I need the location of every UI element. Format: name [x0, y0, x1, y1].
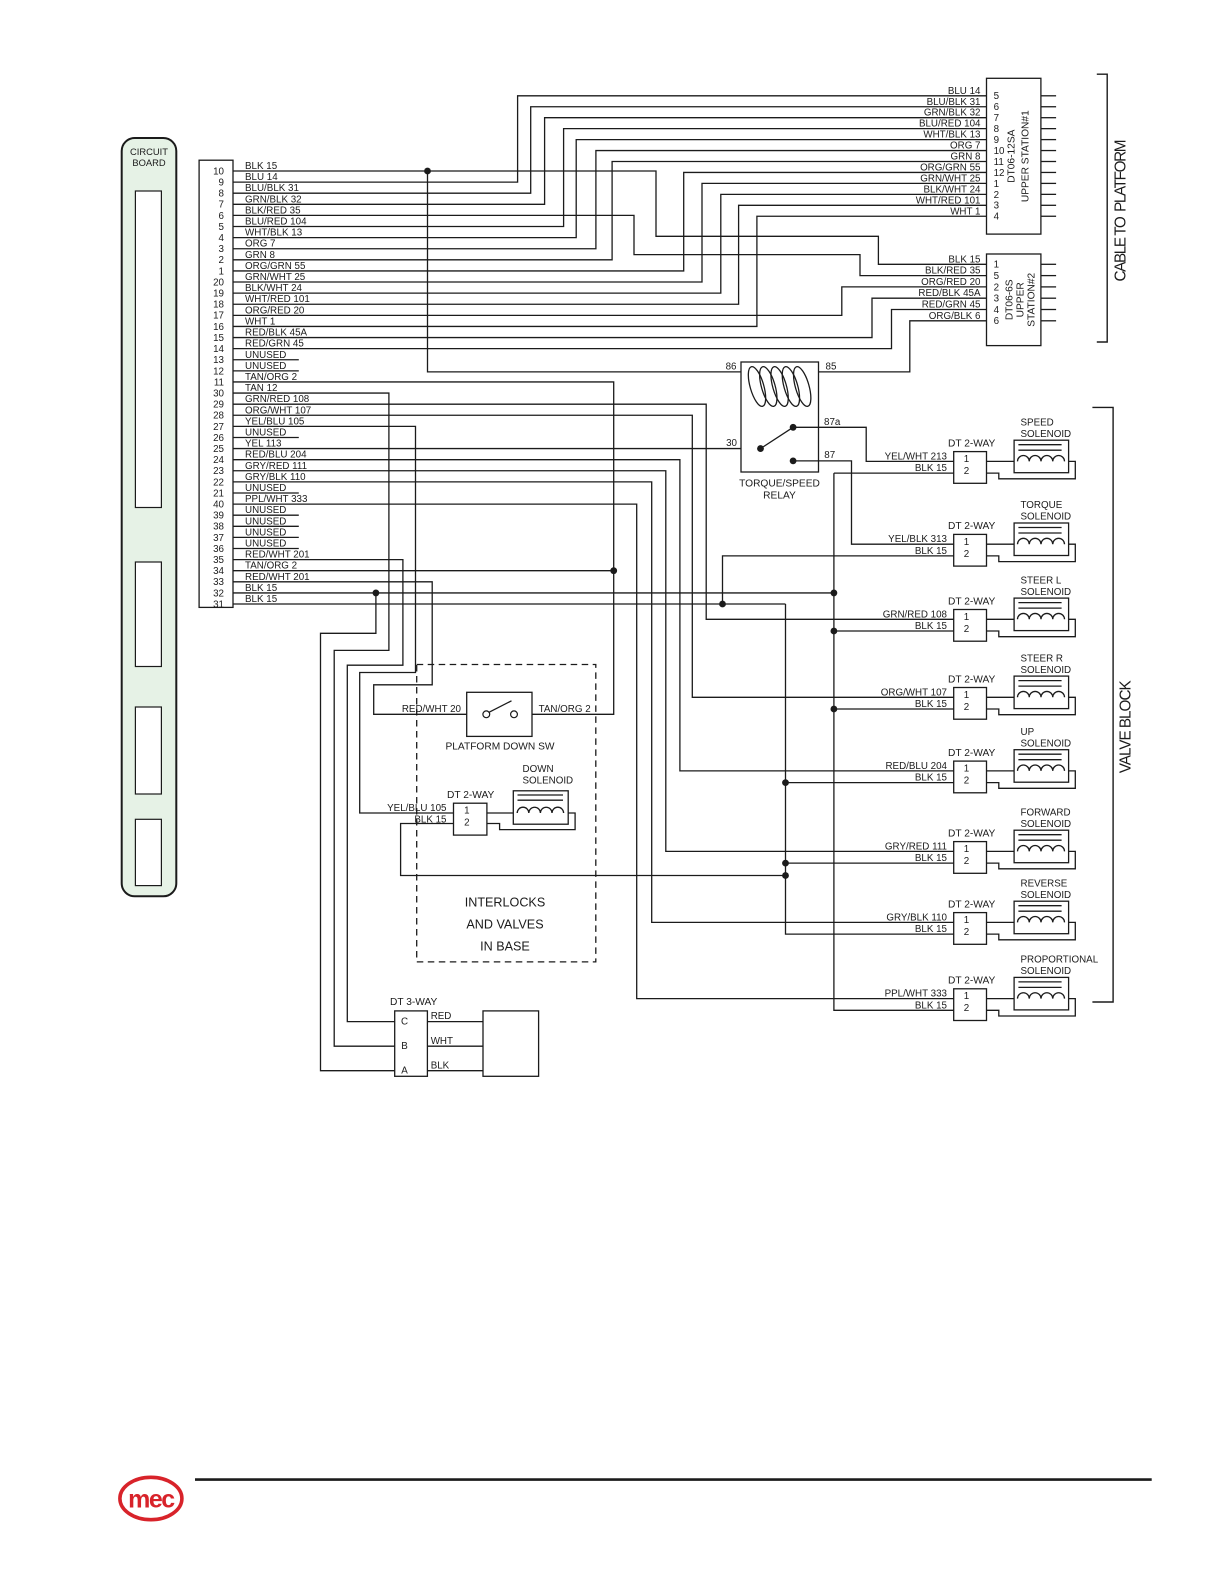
svg-text:BLK 15: BLK 15 [915, 621, 948, 632]
svg-text:24: 24 [213, 455, 224, 466]
svg-text:RED/BLU 204: RED/BLU 204 [885, 761, 947, 772]
svg-text:3: 3 [994, 201, 1000, 212]
svg-text:DT 2-WAY: DT 2-WAY [948, 976, 996, 987]
svg-text:STEER L: STEER L [1021, 575, 1062, 586]
svg-text:1: 1 [964, 612, 969, 623]
svg-text:VALVE BLOCK: VALVE BLOCK [1118, 680, 1135, 774]
svg-text:5: 5 [994, 271, 1000, 282]
svg-text:2: 2 [219, 255, 224, 266]
svg-text:29: 29 [213, 400, 224, 411]
svg-text:PROPORTIONAL: PROPORTIONAL [1021, 955, 1099, 966]
svg-text:SOLENOID: SOLENOID [1021, 587, 1072, 598]
svg-text:2: 2 [964, 466, 969, 477]
svg-text:39: 39 [213, 511, 224, 522]
svg-text:DT 2-WAY: DT 2-WAY [948, 674, 996, 685]
svg-text:6: 6 [219, 211, 225, 222]
svg-text:UP: UP [1021, 727, 1035, 738]
svg-text:ORG/GRN 55: ORG/GRN 55 [920, 162, 981, 173]
svg-text:1: 1 [964, 915, 969, 926]
svg-text:1: 1 [219, 266, 224, 277]
svg-text:BLK 15: BLK 15 [915, 773, 948, 784]
svg-text:BOARD: BOARD [132, 157, 166, 168]
svg-text:GRN/BLK 32: GRN/BLK 32 [924, 108, 981, 119]
svg-text:11: 11 [994, 157, 1004, 168]
svg-text:BLK 15: BLK 15 [948, 254, 981, 265]
svg-text:1: 1 [994, 260, 999, 271]
svg-text:DT 2-WAY: DT 2-WAY [948, 899, 996, 910]
svg-text:DT 2-WAY: DT 2-WAY [948, 828, 996, 839]
svg-text:40: 40 [213, 499, 224, 510]
svg-text:WHT/RED 101: WHT/RED 101 [916, 195, 981, 206]
svg-text:SOLENOID: SOLENOID [1021, 429, 1072, 440]
svg-text:ORG/WHT 107: ORG/WHT 107 [881, 687, 947, 698]
svg-text:1: 1 [964, 690, 969, 701]
svg-text:2: 2 [964, 624, 969, 635]
svg-text:SOLENOID: SOLENOID [523, 775, 574, 786]
svg-text:DT06-6S: DT06-6S [1005, 279, 1016, 320]
svg-text:BLU/RED 104: BLU/RED 104 [919, 119, 981, 130]
svg-text:DT 2-WAY: DT 2-WAY [948, 521, 996, 532]
svg-text:9: 9 [994, 135, 999, 146]
svg-text:CABLE TO PLATFORM: CABLE TO PLATFORM [1113, 140, 1130, 282]
svg-text:2: 2 [964, 927, 969, 938]
svg-text:4: 4 [994, 212, 1000, 223]
svg-text:1: 1 [964, 537, 969, 548]
svg-text:2: 2 [994, 190, 999, 201]
svg-text:DT 2-WAY: DT 2-WAY [948, 438, 996, 449]
svg-text:GRN 8: GRN 8 [951, 152, 981, 163]
svg-text:30: 30 [726, 438, 737, 449]
svg-text:SOLENOID: SOLENOID [1021, 966, 1072, 977]
svg-text:21: 21 [213, 488, 224, 499]
svg-text:34: 34 [213, 566, 224, 577]
svg-text:31: 31 [213, 599, 224, 610]
svg-text:AND VALVES: AND VALVES [466, 918, 543, 932]
svg-text:WHT/BLK 13: WHT/BLK 13 [923, 130, 981, 141]
svg-text:mec: mec [128, 1486, 175, 1514]
svg-text:BLK 15: BLK 15 [915, 853, 948, 864]
svg-text:87a: 87a [824, 417, 841, 428]
svg-text:DT 3-WAY: DT 3-WAY [390, 997, 438, 1008]
svg-text:3: 3 [219, 244, 225, 255]
svg-text:BLK 15: BLK 15 [915, 699, 948, 710]
svg-text:RED/BLK 45A: RED/BLK 45A [918, 288, 981, 299]
svg-text:CIRCUIT: CIRCUIT [130, 146, 168, 157]
svg-text:INTERLOCKS: INTERLOCKS [465, 896, 545, 910]
svg-text:6: 6 [994, 102, 1000, 113]
svg-text:33: 33 [213, 577, 224, 588]
svg-text:TAN/ORG 2: TAN/ORG 2 [539, 704, 591, 715]
svg-text:5: 5 [219, 222, 225, 233]
svg-text:GRY/RED 111: GRY/RED 111 [885, 841, 947, 852]
svg-text:2: 2 [464, 818, 469, 829]
svg-text:25: 25 [213, 444, 224, 455]
svg-text:85: 85 [826, 361, 837, 372]
svg-text:BLK 15: BLK 15 [915, 463, 948, 474]
svg-text:RED/GRN 45: RED/GRN 45 [922, 300, 981, 311]
svg-text:4: 4 [994, 305, 1000, 316]
svg-text:WHT 1: WHT 1 [950, 206, 980, 217]
svg-text:BLK: BLK [431, 1060, 450, 1071]
svg-text:1: 1 [994, 179, 999, 190]
svg-text:GRN/WHT 25: GRN/WHT 25 [920, 173, 981, 184]
svg-text:35: 35 [213, 555, 224, 566]
svg-text:PPL/WHT 333: PPL/WHT 333 [885, 989, 948, 1000]
svg-text:BLK/RED 35: BLK/RED 35 [925, 266, 981, 277]
svg-text:86: 86 [726, 361, 737, 372]
svg-text:RELAY: RELAY [763, 490, 796, 501]
svg-text:1: 1 [964, 454, 969, 465]
svg-text:87: 87 [824, 450, 835, 461]
svg-text:9: 9 [219, 178, 224, 189]
svg-text:ORG 7: ORG 7 [950, 141, 981, 152]
svg-text:RED/WHT 20: RED/WHT 20 [402, 704, 462, 715]
svg-text:30: 30 [213, 388, 224, 399]
svg-text:18: 18 [213, 300, 224, 311]
svg-text:28: 28 [213, 411, 224, 422]
svg-text:7: 7 [219, 200, 224, 211]
svg-text:STEER R: STEER R [1021, 653, 1063, 664]
svg-text:BLU 14: BLU 14 [948, 86, 981, 97]
svg-text:1: 1 [464, 806, 469, 817]
svg-text:11: 11 [214, 377, 224, 388]
svg-text:1: 1 [964, 991, 969, 1002]
svg-text:4: 4 [219, 233, 225, 244]
svg-text:38: 38 [213, 522, 224, 533]
svg-text:DT 2-WAY: DT 2-WAY [447, 790, 495, 801]
svg-text:BLK/WHT 24: BLK/WHT 24 [924, 184, 982, 195]
svg-text:13: 13 [213, 355, 224, 366]
svg-text:DT 2-WAY: DT 2-WAY [948, 596, 996, 607]
svg-text:SOLENOID: SOLENOID [1021, 665, 1072, 676]
svg-text:17: 17 [213, 311, 224, 322]
svg-text:19: 19 [213, 289, 224, 300]
svg-text:2: 2 [964, 702, 969, 713]
svg-text:10: 10 [213, 166, 224, 177]
svg-text:UPPER: UPPER [1016, 282, 1027, 317]
svg-text:STATION#2: STATION#2 [1027, 272, 1038, 326]
svg-text:SOLENOID: SOLENOID [1021, 738, 1072, 749]
svg-text:36: 36 [213, 544, 224, 555]
svg-text:32: 32 [213, 588, 224, 599]
svg-text:BLK 15: BLK 15 [915, 546, 948, 557]
svg-text:YEL/WHT 213: YEL/WHT 213 [885, 451, 948, 462]
svg-text:FORWARD: FORWARD [1021, 807, 1071, 818]
svg-text:IN BASE: IN BASE [480, 940, 530, 954]
svg-text:DOWN: DOWN [523, 764, 554, 775]
svg-text:15: 15 [213, 333, 224, 344]
svg-text:RED: RED [431, 1011, 452, 1022]
svg-text:2: 2 [964, 549, 969, 560]
svg-text:WHT: WHT [431, 1036, 453, 1047]
svg-text:B: B [401, 1041, 408, 1052]
svg-text:ORG/BLK 6: ORG/BLK 6 [929, 311, 981, 322]
svg-text:DT06-12SA: DT06-12SA [1007, 129, 1018, 182]
svg-text:12: 12 [213, 366, 224, 377]
svg-text:12: 12 [994, 168, 1005, 179]
svg-text:ORG/RED 20: ORG/RED 20 [921, 277, 981, 288]
svg-text:27: 27 [213, 422, 224, 433]
svg-text:37: 37 [213, 533, 224, 544]
svg-text:SOLENOID: SOLENOID [1021, 890, 1072, 901]
svg-text:20: 20 [213, 277, 224, 288]
svg-text:2: 2 [964, 856, 969, 867]
svg-text:23: 23 [213, 466, 224, 477]
svg-text:7: 7 [994, 113, 999, 124]
svg-text:SOLENOID: SOLENOID [1021, 819, 1072, 830]
svg-text:YEL/BLK 313: YEL/BLK 313 [888, 534, 947, 545]
svg-text:26: 26 [213, 433, 224, 444]
svg-text:UPPER STATION#1: UPPER STATION#1 [1021, 110, 1032, 202]
svg-text:TORQUE: TORQUE [1021, 500, 1063, 511]
svg-text:5: 5 [994, 91, 1000, 102]
svg-text:BLU/BLK 31: BLU/BLK 31 [927, 97, 981, 108]
svg-text:2: 2 [964, 776, 969, 787]
svg-text:2: 2 [964, 1003, 969, 1014]
svg-text:C: C [401, 1016, 408, 1027]
svg-text:GRY/BLK 110: GRY/BLK 110 [886, 912, 947, 923]
svg-text:16: 16 [213, 322, 224, 333]
svg-text:1: 1 [964, 844, 969, 855]
svg-text:1: 1 [964, 764, 969, 775]
svg-text:2: 2 [994, 282, 999, 293]
svg-text:10: 10 [994, 146, 1005, 157]
svg-text:REVERSE: REVERSE [1021, 878, 1068, 889]
svg-text:22: 22 [213, 477, 224, 488]
svg-text:A: A [401, 1065, 408, 1076]
svg-text:TORQUE/SPEED: TORQUE/SPEED [739, 478, 820, 489]
svg-text:8: 8 [219, 189, 225, 200]
svg-text:SPEED: SPEED [1021, 417, 1054, 428]
svg-text:BLK 15: BLK 15 [915, 924, 948, 935]
svg-text:3: 3 [994, 294, 1000, 305]
svg-text:SOLENOID: SOLENOID [1021, 512, 1072, 523]
svg-text:BLK 15: BLK 15 [414, 815, 447, 826]
svg-text:BLK 15: BLK 15 [915, 1000, 948, 1011]
svg-text:14: 14 [213, 344, 224, 355]
svg-text:PLATFORM DOWN SW: PLATFORM DOWN SW [445, 741, 554, 752]
svg-text:GRN/RED 108: GRN/RED 108 [883, 609, 948, 620]
svg-text:8: 8 [994, 124, 1000, 135]
svg-text:DT 2-WAY: DT 2-WAY [948, 748, 996, 759]
svg-text:YEL/BLU 105: YEL/BLU 105 [387, 803, 447, 814]
svg-text:6: 6 [994, 316, 1000, 327]
